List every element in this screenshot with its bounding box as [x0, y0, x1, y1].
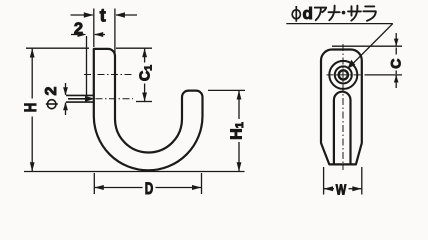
svg-text:2: 2: [43, 86, 60, 95]
svg-text:t: t: [100, 5, 106, 25]
svg-text:2: 2: [74, 20, 83, 38]
svg-text:H: H: [21, 103, 40, 113]
svg-text:D: D: [145, 179, 154, 198]
svg-text:d: d: [303, 4, 313, 23]
svg-text:C: C: [387, 59, 403, 69]
svg-text:W: W: [336, 182, 347, 199]
svg-text:C1: C1: [137, 65, 154, 81]
svg-text:H1: H1: [228, 122, 245, 140]
